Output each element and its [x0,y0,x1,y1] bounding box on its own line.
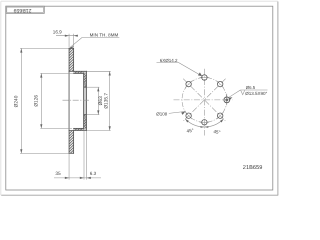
diagonal centerline NW-SE [183,79,225,121]
svg-text:Ø135.7: Ø135.7 [103,93,109,109]
disc friction ring bottom (hatched) [69,131,74,154]
countersunk hole vertical center tick [226,94,228,107]
svg-text:6XØ14.2: 6XØ14.2 [160,58,178,63]
mounting plate upper (hatched) [84,73,87,87]
hat wall bottom (hatched) [74,128,87,130]
svg-text:MIN TH. 8MM: MIN TH. 8MM [90,33,119,38]
section outline [69,48,86,153]
mounting plate lower (hatched) [84,115,87,129]
countersink label leader [228,90,240,98]
title box top-left [6,6,45,13]
bolt hole upper-right [218,81,223,86]
hat wall top (hatched) [74,71,87,73]
svg-text:Ø13.5X90°: Ø13.5X90° [245,91,267,96]
svg-text:45°: 45° [186,128,194,134]
dim D135.7 [87,71,111,130]
bolt hole top [202,75,207,80]
countersink symbol [241,90,245,94]
dim 16.9 [56,34,78,48]
hole center ticks [185,78,223,123]
svg-text:Ø6.5: Ø6.5 [246,85,256,90]
svg-text:Ø126: Ø126 [33,95,39,107]
bolt hole bottom [202,120,207,125]
bore edges [84,87,87,114]
svg-text:35: 35 [55,171,61,177]
dim D240 [20,48,69,153]
svg-text:Ø108: Ø108 [156,111,168,116]
countersunk hole right [224,97,230,103]
horizontal centerline [174,99,233,101]
vertical centerline [203,69,205,136]
dims 35 and 6.3 [54,131,101,180]
45 degree arc [185,119,223,127]
diagonal centerline NE-SW [183,79,225,121]
svg-text:21B659: 21B659 [243,165,263,171]
svg-text:Ø240: Ø240 [14,95,20,107]
mounting plate body [84,71,87,130]
svg-text:Ø63: Ø63 [98,96,104,105]
svg-text:16.9: 16.9 [53,30,62,35]
page outer border [1,1,278,195]
bolt hole upper-left [186,81,191,86]
svg-text:6.3: 6.3 [90,171,97,176]
svg-text:45°: 45° [213,129,221,135]
bolt hole lower-left [186,113,191,118]
plate dark zones [84,83,87,86]
leader MIN TH. 8MM [70,38,120,48]
bolt circle D108 [182,78,227,123]
bolt hole lower-right [218,113,223,118]
dim D63 [87,87,99,114]
disc friction ring top (hatched) [69,48,74,71]
dim D126 [40,73,73,128]
drawing frame [6,6,273,190]
section centerline [63,99,91,101]
svg-text:21B659: 21B659 [14,7,32,13]
